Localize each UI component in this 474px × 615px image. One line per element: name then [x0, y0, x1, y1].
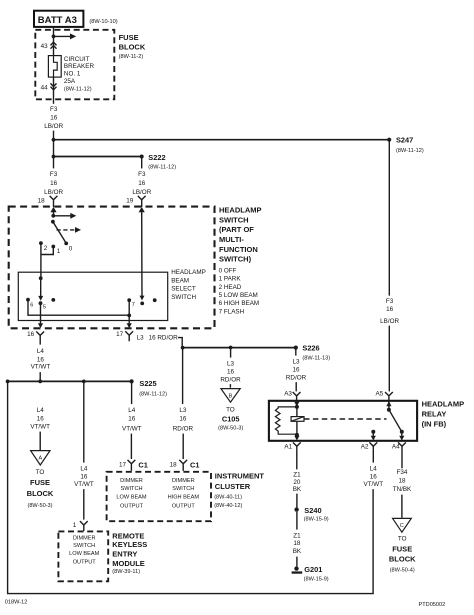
svg-text:20: 20 — [293, 479, 301, 486]
svg-text:16: 16 — [50, 180, 58, 187]
svg-text:VT/WT: VT/WT — [30, 423, 50, 430]
arrow: wiper direction (dashed) — [57, 227, 82, 233]
contact position 1 — [51, 245, 60, 256]
svg-text:DIMMER: DIMMER — [120, 478, 143, 484]
pin 16 — [27, 303, 44, 339]
switch wiper pivot (headlamp switch) — [51, 214, 55, 224]
relay switch (A5 common) — [371, 401, 404, 434]
svg-text:(8W-11-12): (8W-11-12) — [148, 165, 176, 171]
svg-text:SWITCH: SWITCH — [219, 215, 249, 224]
svg-text:VT/WT: VT/WT — [31, 364, 51, 371]
svg-text:2: 2 — [44, 245, 48, 252]
svg-text:1: 1 — [57, 248, 61, 255]
svg-text:L4: L4 — [80, 465, 88, 472]
svg-text:FUSE: FUSE — [119, 33, 139, 42]
node: junction under contact 7 — [127, 300, 131, 320]
svg-text:BLOCK: BLOCK — [389, 555, 416, 564]
svg-text:TN/BK: TN/BK — [393, 486, 412, 493]
svg-text:16: 16 — [292, 366, 300, 373]
svg-text:5: 5 — [43, 305, 46, 311]
svg-text:16: 16 — [80, 473, 88, 480]
wire L3 16 RD/OR (pin 17 to S226 bus) — [137, 334, 183, 347]
wire L4 16 VT/WT (S225 to cluster pin 17) — [122, 381, 142, 459]
svg-text:A4: A4 — [392, 443, 400, 450]
svg-text:INSTRUMENT: INSTRUMENT — [215, 471, 265, 480]
pin 17 C1 (instrument cluster) — [119, 460, 148, 471]
svg-text:018W-12: 018W-12 — [5, 599, 28, 605]
svg-text:(8W-50-3): (8W-50-3) — [27, 503, 52, 509]
svg-text:VT/WT: VT/WT — [74, 481, 94, 488]
svg-text:VT/WT: VT/WT — [364, 481, 384, 488]
svg-text:BLOCK: BLOCK — [27, 489, 54, 498]
svg-text:(8W-40-11): (8W-40-11) — [214, 495, 242, 501]
svg-text:L4: L4 — [37, 407, 45, 414]
wire S226 bus — [181, 346, 298, 350]
svg-text:16: 16 — [27, 331, 35, 338]
svg-text:16: 16 — [227, 368, 235, 375]
wire L4 16 VT/WT to connector A — [30, 407, 50, 450]
svg-text:PTD05002: PTD05002 — [419, 602, 446, 608]
svg-text:S225: S225 — [139, 379, 156, 388]
svg-text:F3: F3 — [50, 171, 58, 178]
wire: junction down to S222 — [53, 140, 55, 157]
svg-text:A5: A5 — [375, 390, 383, 397]
svg-text:TO: TO — [398, 535, 407, 542]
svg-text:6: 6 — [30, 302, 33, 308]
svg-text:16: 16 — [37, 357, 45, 364]
svg-text:(8W-11-12): (8W-11-12) — [396, 148, 424, 154]
svg-text:VT/WT: VT/WT — [122, 426, 142, 433]
connector B (to C105) — [218, 389, 243, 432]
svg-text:(PART OF: (PART OF — [219, 225, 254, 234]
relay coil — [291, 407, 304, 437]
pin 18 C1 (instrument cluster) — [170, 460, 200, 471]
svg-text:16: 16 — [386, 306, 394, 313]
svg-text:SWITCH): SWITCH) — [219, 255, 252, 264]
svg-text:L3: L3 — [227, 360, 235, 367]
wire L4 16 VT/WT (A2 to low beam feed loop) — [8, 381, 384, 593]
svg-text:L4: L4 — [37, 348, 45, 355]
svg-text:LOW BEAM: LOW BEAM — [69, 551, 99, 557]
svg-text:7 FLASH: 7 FLASH — [219, 308, 245, 315]
svg-text:2 HEAD: 2 HEAD — [219, 284, 242, 291]
svg-text:1 PARK: 1 PARK — [219, 276, 242, 283]
svg-text:19: 19 — [126, 198, 134, 205]
pin 1 (RKE) — [73, 521, 88, 531]
wire Z1 18 BK (S240 to ground) — [293, 512, 302, 567]
svg-text:SWITCH: SWITCH — [120, 486, 142, 492]
relay coil entry arrow — [294, 401, 299, 409]
wire F3 16 LB/OR to pin 19 — [132, 157, 151, 197]
svg-text:BLOCK: BLOCK — [119, 43, 146, 52]
svg-text:Z1: Z1 — [293, 472, 301, 479]
svg-text:SWITCH: SWITCH — [172, 486, 194, 492]
svg-text:18: 18 — [293, 540, 301, 547]
connector A (to fuse block) — [27, 451, 54, 509]
svg-text:LB/OR: LB/OR — [44, 189, 63, 196]
svg-text:HEADLAMP: HEADLAMP — [219, 206, 262, 215]
svg-text:L3: L3 — [179, 407, 187, 414]
svg-text:16: 16 — [179, 415, 187, 422]
headlamp beam select switch label — [171, 269, 206, 301]
pin 18 — [38, 196, 58, 207]
ground G201 — [292, 565, 329, 582]
svg-text:RELAY: RELAY — [422, 409, 447, 418]
svg-text:HEADLAMP: HEADLAMP — [171, 269, 206, 276]
svg-text:S226: S226 — [302, 343, 319, 352]
svg-text:(8W-50-3): (8W-50-3) — [218, 425, 243, 431]
svg-text:0: 0 — [69, 246, 73, 253]
wire F3 16 LB/OR (S247 to relay A5) — [380, 140, 399, 392]
svg-text:FUNCTION: FUNCTION — [219, 245, 258, 254]
relay actuator dashed link — [304, 418, 387, 420]
svg-text:A2: A2 — [361, 443, 369, 450]
relay resistor (parallel) — [275, 407, 297, 434]
wire L4 16 VT/WT to RKE pin 1 — [74, 381, 94, 519]
svg-text:25A: 25A — [64, 78, 76, 85]
wire Z1 20 BK (A1 to S240) — [293, 450, 302, 508]
svg-text:44: 44 — [41, 85, 49, 92]
svg-text:F3: F3 — [386, 298, 394, 305]
svg-text:(8W-15-9): (8W-15-9) — [304, 517, 329, 523]
wire L3 16 RD/OR to connector B — [220, 348, 241, 388]
svg-text:F34: F34 — [397, 469, 408, 476]
svg-text:(8W-11-12): (8W-11-12) — [139, 391, 167, 397]
fuse block (dashed box) — [35, 30, 114, 100]
wire L4 16 VT/WT (pin 16 to S225) — [31, 339, 51, 381]
svg-text:OUTPUT: OUTPUT — [120, 504, 144, 510]
svg-text:FUSE: FUSE — [392, 544, 412, 553]
svg-text:(8W-11-2): (8W-11-2) — [119, 54, 144, 60]
svg-text:6 HIGH BEAM: 6 HIGH BEAM — [219, 300, 260, 307]
svg-text:OUTPUT: OUTPUT — [172, 504, 196, 510]
splice S226 label — [302, 343, 330, 361]
svg-text:FUSE: FUSE — [30, 478, 50, 487]
beam select right wiper (high beam) — [127, 278, 156, 308]
svg-text:L3: L3 — [292, 358, 300, 365]
svg-text:16 RD/OR: 16 RD/OR — [149, 334, 178, 341]
svg-text:DIMMER: DIMMER — [73, 535, 96, 541]
pin 43 — [41, 42, 57, 50]
node: feed junction in fuse block — [52, 35, 56, 39]
splice S247 — [387, 136, 424, 154]
wire L3 16 RD/OR (S226 to relay A3) — [286, 348, 307, 392]
svg-text:7: 7 — [132, 302, 135, 308]
battery feed BATT A3 — [34, 11, 83, 27]
splice S222 — [52, 153, 177, 171]
svg-text:BATT A3: BATT A3 — [38, 15, 77, 26]
svg-text:16: 16 — [128, 415, 136, 422]
svg-text:RD/OR: RD/OR — [286, 374, 307, 381]
pin A2 — [361, 442, 377, 450]
svg-text:BEAM: BEAM — [171, 277, 189, 284]
svg-text:LB/OR: LB/OR — [380, 318, 399, 325]
svg-text:HIGH BEAM: HIGH BEAM — [168, 495, 200, 501]
svg-text:SWITCH: SWITCH — [73, 543, 95, 549]
arrow: feed to other circuits — [54, 33, 77, 39]
node: junction at F3 bus — [52, 138, 56, 142]
svg-text:A: A — [38, 456, 42, 462]
pin 17 — [116, 321, 133, 342]
headlamp relay box — [269, 401, 417, 441]
svg-text:F3: F3 — [50, 106, 58, 113]
svg-text:(8W-40-12): (8W-40-12) — [214, 503, 242, 509]
svg-text:BK: BK — [293, 486, 302, 493]
wire: pin 19 entry arrow down to beam select — [139, 207, 145, 278]
svg-text:SWITCH: SWITCH — [171, 294, 196, 301]
splice S240 — [294, 506, 328, 523]
svg-text:1: 1 — [73, 522, 77, 529]
wire: pin 18 entry arrow — [50, 207, 56, 216]
arrow: wiper direction (solid) — [53, 213, 76, 219]
svg-text:OUTPUT: OUTPUT — [73, 559, 97, 565]
svg-text:17: 17 — [116, 331, 124, 338]
svg-text:S222: S222 — [148, 153, 165, 162]
svg-text:C: C — [400, 523, 404, 529]
svg-text:LOW BEAM: LOW BEAM — [116, 495, 146, 501]
circuit breaker No. 1 25A — [48, 56, 94, 93]
svg-text:(8W-15-9): (8W-15-9) — [304, 576, 329, 582]
svg-text:KEYLESS: KEYLESS — [112, 540, 147, 549]
svg-text:ENTRY: ENTRY — [112, 550, 137, 559]
svg-text:(8W-50-4): (8W-50-4) — [390, 567, 415, 573]
svg-text:MODULE: MODULE — [112, 559, 145, 568]
pin 19 — [126, 196, 145, 207]
svg-text:16: 16 — [138, 180, 146, 187]
beam select left wiper (low beam) — [26, 276, 55, 310]
svg-text:18: 18 — [398, 477, 406, 484]
svg-text:G201: G201 — [304, 565, 322, 574]
wire: positions 1 and 2 joined to beam select — [41, 243, 53, 278]
svg-text:BREAKER: BREAKER — [64, 63, 95, 70]
switch wiper arm to position 0 — [53, 222, 73, 253]
wire F34 18 TN/BK (A4 to connector C) — [393, 450, 412, 518]
headlamp switch title — [219, 206, 262, 264]
svg-text:(8W-11-13): (8W-11-13) — [302, 356, 330, 362]
remote keyless entry module box (dashed) — [58, 531, 108, 581]
svg-text:SELECT: SELECT — [171, 286, 196, 293]
svg-text:(8W-11-12): (8W-11-12) — [64, 86, 92, 92]
svg-text:BK: BK — [293, 548, 302, 555]
pin A4 — [392, 442, 406, 450]
wire F3 16 LB/OR to pin 18 — [44, 157, 63, 197]
svg-text:A3: A3 — [284, 391, 292, 398]
svg-text:16: 16 — [37, 415, 45, 422]
svg-text:5 LOW BEAM: 5 LOW BEAM — [219, 292, 258, 299]
headlamp beam select switch box — [18, 272, 167, 320]
headlamp switch box (dashed) — [9, 207, 215, 329]
svg-text:DIMMER: DIMMER — [172, 478, 195, 484]
svg-text:17: 17 — [119, 461, 127, 468]
fuse block label — [119, 33, 146, 60]
svg-text:RD/OR: RD/OR — [220, 377, 241, 384]
wire: bus to S247 — [54, 139, 390, 141]
svg-text:TO: TO — [36, 469, 45, 476]
svg-text:C1: C1 — [138, 460, 147, 469]
svg-text:F3: F3 — [138, 171, 146, 178]
svg-text:RD/OR: RD/OR — [173, 426, 194, 433]
remote keyless entry module label — [112, 531, 147, 575]
instrument cluster box (dashed) — [107, 472, 211, 521]
svg-text:18: 18 — [38, 198, 46, 205]
svg-text:CIRCUIT: CIRCUIT — [64, 56, 90, 63]
pin A5 — [375, 390, 392, 400]
svg-text:16: 16 — [50, 114, 58, 121]
instrument cluster label — [214, 471, 264, 509]
wire L3 16 RD/OR (S226 to cluster pin 18) — [173, 348, 194, 459]
pin 44 — [41, 83, 57, 91]
svg-text:C105: C105 — [222, 415, 240, 424]
svg-text:NO. 1: NO. 1 — [64, 71, 81, 78]
connector C (to fuse block) — [389, 518, 416, 573]
svg-text:0 OFF: 0 OFF — [219, 267, 237, 274]
wire F3 16 LB/OR (breaker to bus) — [44, 77, 63, 140]
relay contact exits — [294, 432, 404, 441]
svg-text:L3: L3 — [137, 334, 145, 341]
splice S225 bus — [6, 379, 167, 397]
headlamp relay label — [422, 399, 465, 428]
svg-text:S247: S247 — [396, 136, 413, 145]
svg-text:HEADLAMP: HEADLAMP — [422, 399, 465, 408]
svg-text:B: B — [229, 394, 233, 400]
svg-text:LB/OR: LB/OR — [132, 189, 151, 196]
svg-text:16: 16 — [370, 473, 378, 480]
svg-text:A1: A1 — [284, 443, 292, 450]
svg-text:MULTI-: MULTI- — [219, 235, 244, 244]
svg-text:L4: L4 — [128, 407, 136, 414]
svg-text:Z1: Z1 — [293, 532, 301, 539]
svg-text:L4: L4 — [370, 465, 378, 472]
wire: contact 6 link to pin 17 leg — [28, 300, 129, 316]
svg-text:18: 18 — [170, 461, 178, 468]
wire: BATT A3 down into fuse block — [53, 27, 55, 56]
svg-text:S240: S240 — [304, 506, 321, 515]
svg-text:REMOTE: REMOTE — [112, 531, 144, 540]
svg-text:(IN FB): (IN FB) — [422, 420, 447, 429]
svg-text:LB/OR: LB/OR — [44, 123, 63, 130]
svg-text:(8W-10-10): (8W-10-10) — [89, 19, 117, 25]
svg-text:TO: TO — [226, 407, 235, 414]
switch position list — [219, 267, 260, 315]
pin A1 — [284, 442, 300, 450]
svg-text:C1: C1 — [190, 460, 199, 469]
svg-text:CLUSTER: CLUSTER — [215, 482, 251, 491]
svg-text:(8W-39-11): (8W-39-11) — [112, 569, 140, 575]
pin A3 — [284, 391, 300, 401]
contact position 2 — [39, 241, 48, 252]
svg-text:43: 43 — [41, 43, 49, 50]
